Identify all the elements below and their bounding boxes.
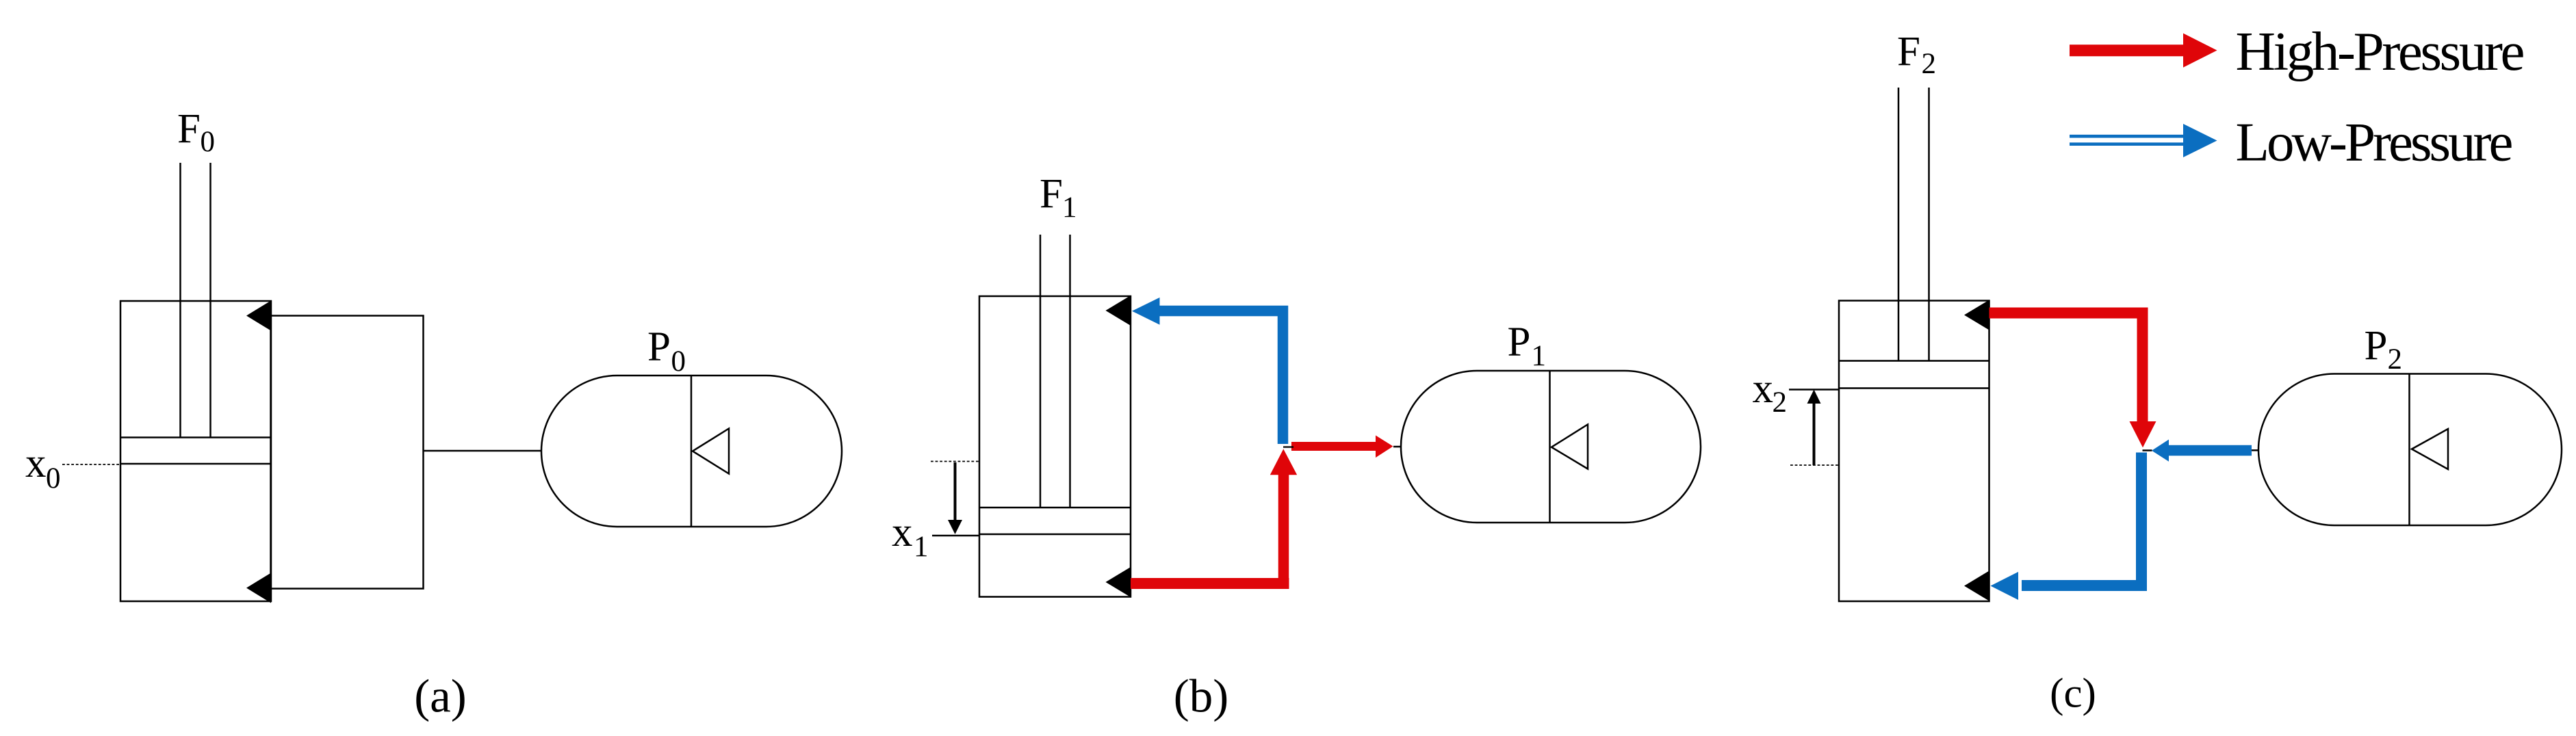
svg-text:P: P bbox=[647, 324, 671, 370]
svg-text:x: x bbox=[25, 441, 47, 486]
svg-text:0: 0 bbox=[671, 345, 686, 378]
svg-text:P: P bbox=[1508, 319, 1531, 365]
svg-text:F: F bbox=[1897, 29, 1920, 75]
svg-text:1: 1 bbox=[1062, 192, 1077, 224]
svg-text:High-Pressure: High-Pressure bbox=[2236, 21, 2525, 82]
svg-text:P: P bbox=[2365, 324, 2388, 369]
svg-text:(b): (b) bbox=[1174, 670, 1228, 722]
svg-text:0: 0 bbox=[201, 126, 216, 158]
svg-text:x: x bbox=[892, 510, 913, 555]
svg-text:2: 2 bbox=[2388, 343, 2403, 376]
svg-text:1: 1 bbox=[1532, 340, 1547, 372]
svg-text:x: x bbox=[1753, 366, 1774, 412]
svg-text:2: 2 bbox=[1922, 48, 1937, 80]
svg-text:2: 2 bbox=[1773, 386, 1788, 419]
svg-text:1: 1 bbox=[914, 531, 929, 563]
svg-text:0: 0 bbox=[46, 462, 61, 495]
svg-text:F: F bbox=[177, 106, 201, 152]
svg-text:(c): (c) bbox=[2050, 671, 2096, 717]
svg-text:(a): (a) bbox=[414, 670, 467, 722]
svg-text:Low-Pressure: Low-Pressure bbox=[2236, 111, 2514, 173]
svg-text:F: F bbox=[1040, 171, 1063, 217]
